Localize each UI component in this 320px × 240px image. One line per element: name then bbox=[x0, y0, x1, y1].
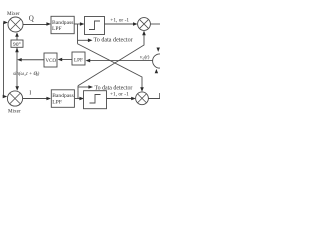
svg-text:I: I bbox=[29, 90, 31, 96]
svg-text:Q: Q bbox=[29, 15, 34, 23]
svg-text:Mixer: Mixer bbox=[8, 108, 21, 114]
svg-text:LPF: LPF bbox=[52, 26, 62, 32]
svg-text:To data detector: To data detector bbox=[94, 38, 133, 44]
svg-text:90°: 90° bbox=[13, 41, 21, 48]
svg-text:+1, or -1: +1, or -1 bbox=[110, 91, 129, 97]
svg-text:sin(ω: sin(ω bbox=[13, 72, 25, 77]
svg-text:LPF: LPF bbox=[52, 99, 62, 105]
svg-text:VCO: VCO bbox=[45, 58, 56, 64]
svg-text:Bandpass: Bandpass bbox=[52, 93, 73, 99]
svg-text:+1, or -1: +1, or -1 bbox=[110, 17, 129, 23]
svg-text:To data detector: To data detector bbox=[95, 86, 133, 92]
svg-text:Mixer: Mixer bbox=[7, 11, 20, 17]
svg-text:): ) bbox=[37, 72, 40, 77]
svg-text:LPF: LPF bbox=[74, 57, 83, 63]
